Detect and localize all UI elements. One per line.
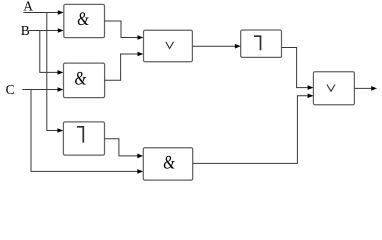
NOT gate D3 glyph bbox=[77, 127, 83, 143]
wire D6 output to D7 input 1 bbox=[282, 48, 309, 88]
NOT gate D3 (bottom-left) box bbox=[63, 122, 104, 155]
wire D7 output (final) bbox=[354, 87, 371, 89]
OR gate D5 glyph v bbox=[166, 42, 174, 49]
NOT gate D6 glyph bbox=[254, 36, 261, 50]
arrowhead into D3 input bbox=[57, 128, 63, 133]
AND gate D2 (middle) box bbox=[64, 63, 105, 98]
wire A to D1 input 1 bbox=[24, 12, 59, 14]
OR gate D7 glyph v bbox=[327, 85, 335, 92]
svg-text:B: B bbox=[21, 23, 30, 38]
NOT gate D6 (top-right) box bbox=[241, 30, 282, 57]
wire C branch down to D4 input 2 bbox=[31, 90, 138, 172]
wire B to D1 input 2 bbox=[29, 30, 59, 32]
arrowhead into D1 input 1 bbox=[58, 10, 64, 15]
wire D5 output to D6 input bbox=[192, 45, 235, 47]
input label C bbox=[6, 82, 15, 97]
wire B branch down to D2 input 1 bbox=[40, 31, 58, 73]
OR gate D7 (output) box bbox=[313, 72, 354, 105]
arrowhead into D5 input 2 bbox=[138, 52, 144, 57]
wire D2 output to D5 input 2 bbox=[105, 54, 138, 80]
wire C to D2 input 2 bbox=[22, 89, 58, 91]
arrowhead into D7 input 2 bbox=[308, 94, 314, 99]
svg-text:&: & bbox=[163, 152, 177, 173]
svg-text:A: A bbox=[23, 0, 33, 13]
svg-text:&: & bbox=[74, 68, 88, 89]
input label A bbox=[23, 0, 33, 13]
wire D4 output to D7 input 2 bbox=[193, 96, 308, 164]
arrowhead into D6 input bbox=[235, 44, 241, 49]
svg-text:&: & bbox=[77, 9, 91, 30]
input label B bbox=[21, 23, 30, 38]
arrowhead into D2 input 2 bbox=[58, 87, 64, 92]
AND gate D4 (bottom) box bbox=[143, 148, 192, 180]
arrowhead into D7 input 1 bbox=[308, 85, 314, 90]
svg-text:C: C bbox=[6, 82, 15, 97]
AND gate D1 (top) box bbox=[64, 4, 105, 37]
OR gate D5 box bbox=[144, 30, 193, 62]
arrowhead into D4 input 1 bbox=[137, 154, 143, 159]
wire D3 output to D4 input 1 bbox=[105, 139, 138, 156]
arrowhead into D1 input 2 bbox=[58, 28, 64, 33]
wire D1 output to D5 input 1 bbox=[105, 21, 138, 38]
arrowhead into D5 input 1 bbox=[138, 35, 144, 40]
wire A branch down to D3 bbox=[47, 13, 58, 131]
arrowhead final output bbox=[371, 86, 377, 91]
arrowhead into D2 input 1 bbox=[58, 70, 64, 75]
arrowhead into D4 input 2 bbox=[137, 169, 143, 174]
